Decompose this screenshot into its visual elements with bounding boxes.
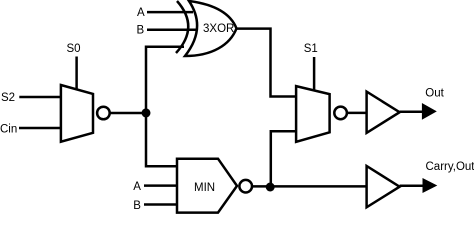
svg-text:A: A (137, 7, 145, 19)
bubble on MIN output (239, 180, 252, 193)
svg-text:Cin: Cin (0, 124, 17, 136)
mux U3 (296, 86, 330, 142)
svg-text:S1: S1 (304, 43, 318, 55)
svg-text:A: A (133, 181, 141, 193)
buffer U5 (367, 92, 400, 133)
wire S2 to mux U2 (19, 96, 61, 99)
wire MIN output to buffer U6 (252, 185, 367, 188)
mux U2 (61, 85, 93, 142)
wire buffer U5 output with arrowhead (400, 110, 423, 113)
wire S1 select (313, 57, 316, 91)
svg-text:S0: S0 (67, 43, 81, 55)
bubble on mux U2 output (97, 107, 110, 120)
bubble on mux U3 output (334, 107, 347, 120)
wire S0 select (75, 57, 78, 91)
wire B to MIN (144, 203, 177, 206)
node N1 junction dot (142, 108, 151, 117)
wire mux U3 output to buffer U5 (347, 112, 367, 115)
svg-text:B: B (133, 200, 141, 212)
wire A to XOR (147, 11, 193, 14)
minority gate U4 (MIN) (177, 159, 237, 213)
wire B to XOR (147, 28, 196, 31)
buffer U6 (367, 166, 400, 207)
wire A to MIN (144, 184, 177, 187)
wire Cin to mux U2 (19, 127, 61, 130)
wire XOR output to mux U3 input (237, 29, 297, 97)
svg-text:3XOR: 3XOR (203, 23, 234, 35)
xor gate U1 (3XOR) (176, 1, 237, 56)
svg-text:Out: Out (425, 87, 444, 99)
svg-text:MIN: MIN (194, 182, 215, 194)
svg-text:B: B (137, 25, 145, 37)
wire vertical net N1 (XOR C input / MIN top input) (146, 47, 184, 167)
wire mux U2 output to node N1 (110, 112, 146, 115)
svg-text:S2: S2 (1, 92, 15, 104)
wire buffer U6 output with arrowhead (400, 185, 423, 188)
svg-text:Carry,Out: Carry,Out (426, 161, 474, 173)
node N2 junction dot (266, 183, 275, 192)
wire node N2 to mux U3 lower input (271, 131, 296, 187)
